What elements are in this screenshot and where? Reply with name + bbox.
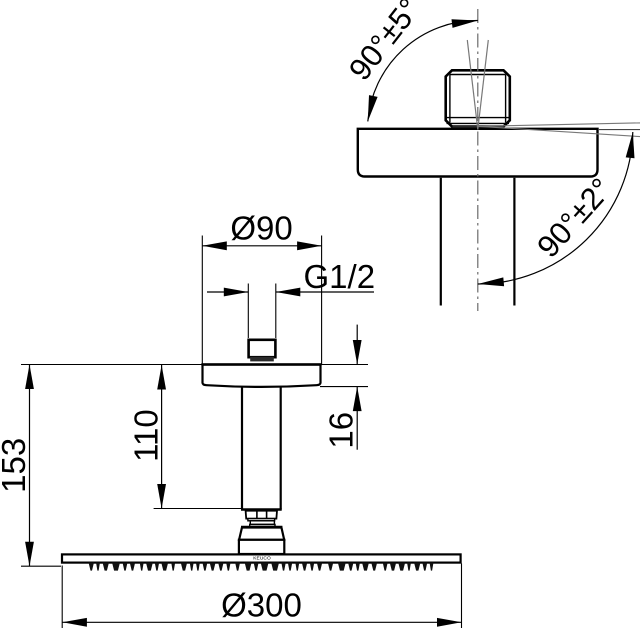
ball joint neck rings bbox=[248, 519, 275, 527]
dimension line D90 bbox=[202, 245, 321, 247]
wire ceiling extension line bbox=[21, 364, 368, 366]
ball joint lower cylinder bbox=[239, 540, 284, 554]
threaded nipple (main view) bbox=[249, 340, 276, 362]
flange top edge thick bbox=[201, 363, 321, 365]
spray nozzle row bbox=[89, 562, 434, 570]
dimension 16 line bottom bbox=[356, 387, 358, 450]
svg-text:Ø300: Ø300 bbox=[221, 587, 302, 624]
dimension 153 line bbox=[29, 365, 31, 567]
supply pipe (detail view) bbox=[441, 178, 515, 306]
extension line dim 90 left bbox=[201, 236, 203, 365]
svg-text:KEUCO: KEUCO bbox=[253, 556, 271, 562]
horizontal reference line right bbox=[598, 129, 640, 131]
shower arm tube bbox=[241, 388, 282, 510]
dimension D300 extension right bbox=[461, 564, 463, 629]
ceiling plate (detail view) bbox=[358, 129, 598, 177]
extension line 16 bottom bbox=[320, 386, 368, 388]
angle arc 90+-2 bbox=[478, 132, 633, 284]
tolerance fan lines +-2deg bbox=[478, 123, 640, 126]
centerline pipe axis bbox=[477, 9, 479, 311]
extension line dim 90 right bbox=[321, 236, 323, 365]
ball joint cone housing bbox=[239, 527, 284, 539]
dimension 110 line bbox=[161, 365, 163, 509]
dimension D300 extension left bbox=[61, 566, 63, 629]
nipple bottom collar bbox=[453, 126, 504, 129]
dimension line G1/2 left tail bbox=[207, 291, 248, 293]
svg-text:16: 16 bbox=[322, 412, 359, 449]
ceiling flange plate (main view) bbox=[203, 365, 321, 387]
svg-text:153: 153 bbox=[0, 438, 32, 493]
extension line 110 bottom bbox=[154, 508, 241, 510]
nipple inner lines bbox=[447, 75, 510, 124]
threaded nipple (detail view) outer bbox=[446, 70, 510, 126]
extension line G1/2 left bbox=[247, 284, 249, 339]
shower head plate bbox=[62, 554, 461, 562]
dimension 16 line top bbox=[356, 325, 358, 365]
svg-text:Ø90: Ø90 bbox=[230, 210, 292, 247]
extension line G1/2 right bbox=[275, 284, 277, 339]
tolerance fan lines +-5deg bbox=[467, 40, 478, 130]
extension line 153 bottom bbox=[21, 565, 61, 567]
ball joint nut bbox=[246, 511, 277, 519]
svg-text:110: 110 bbox=[128, 409, 165, 462]
svg-text:G1/2: G1/2 bbox=[304, 258, 376, 295]
dimension line D300 bbox=[62, 621, 461, 623]
angle arc 90+-5 bbox=[368, 20, 478, 121]
dimension line G1/2 right tail bbox=[276, 291, 374, 293]
